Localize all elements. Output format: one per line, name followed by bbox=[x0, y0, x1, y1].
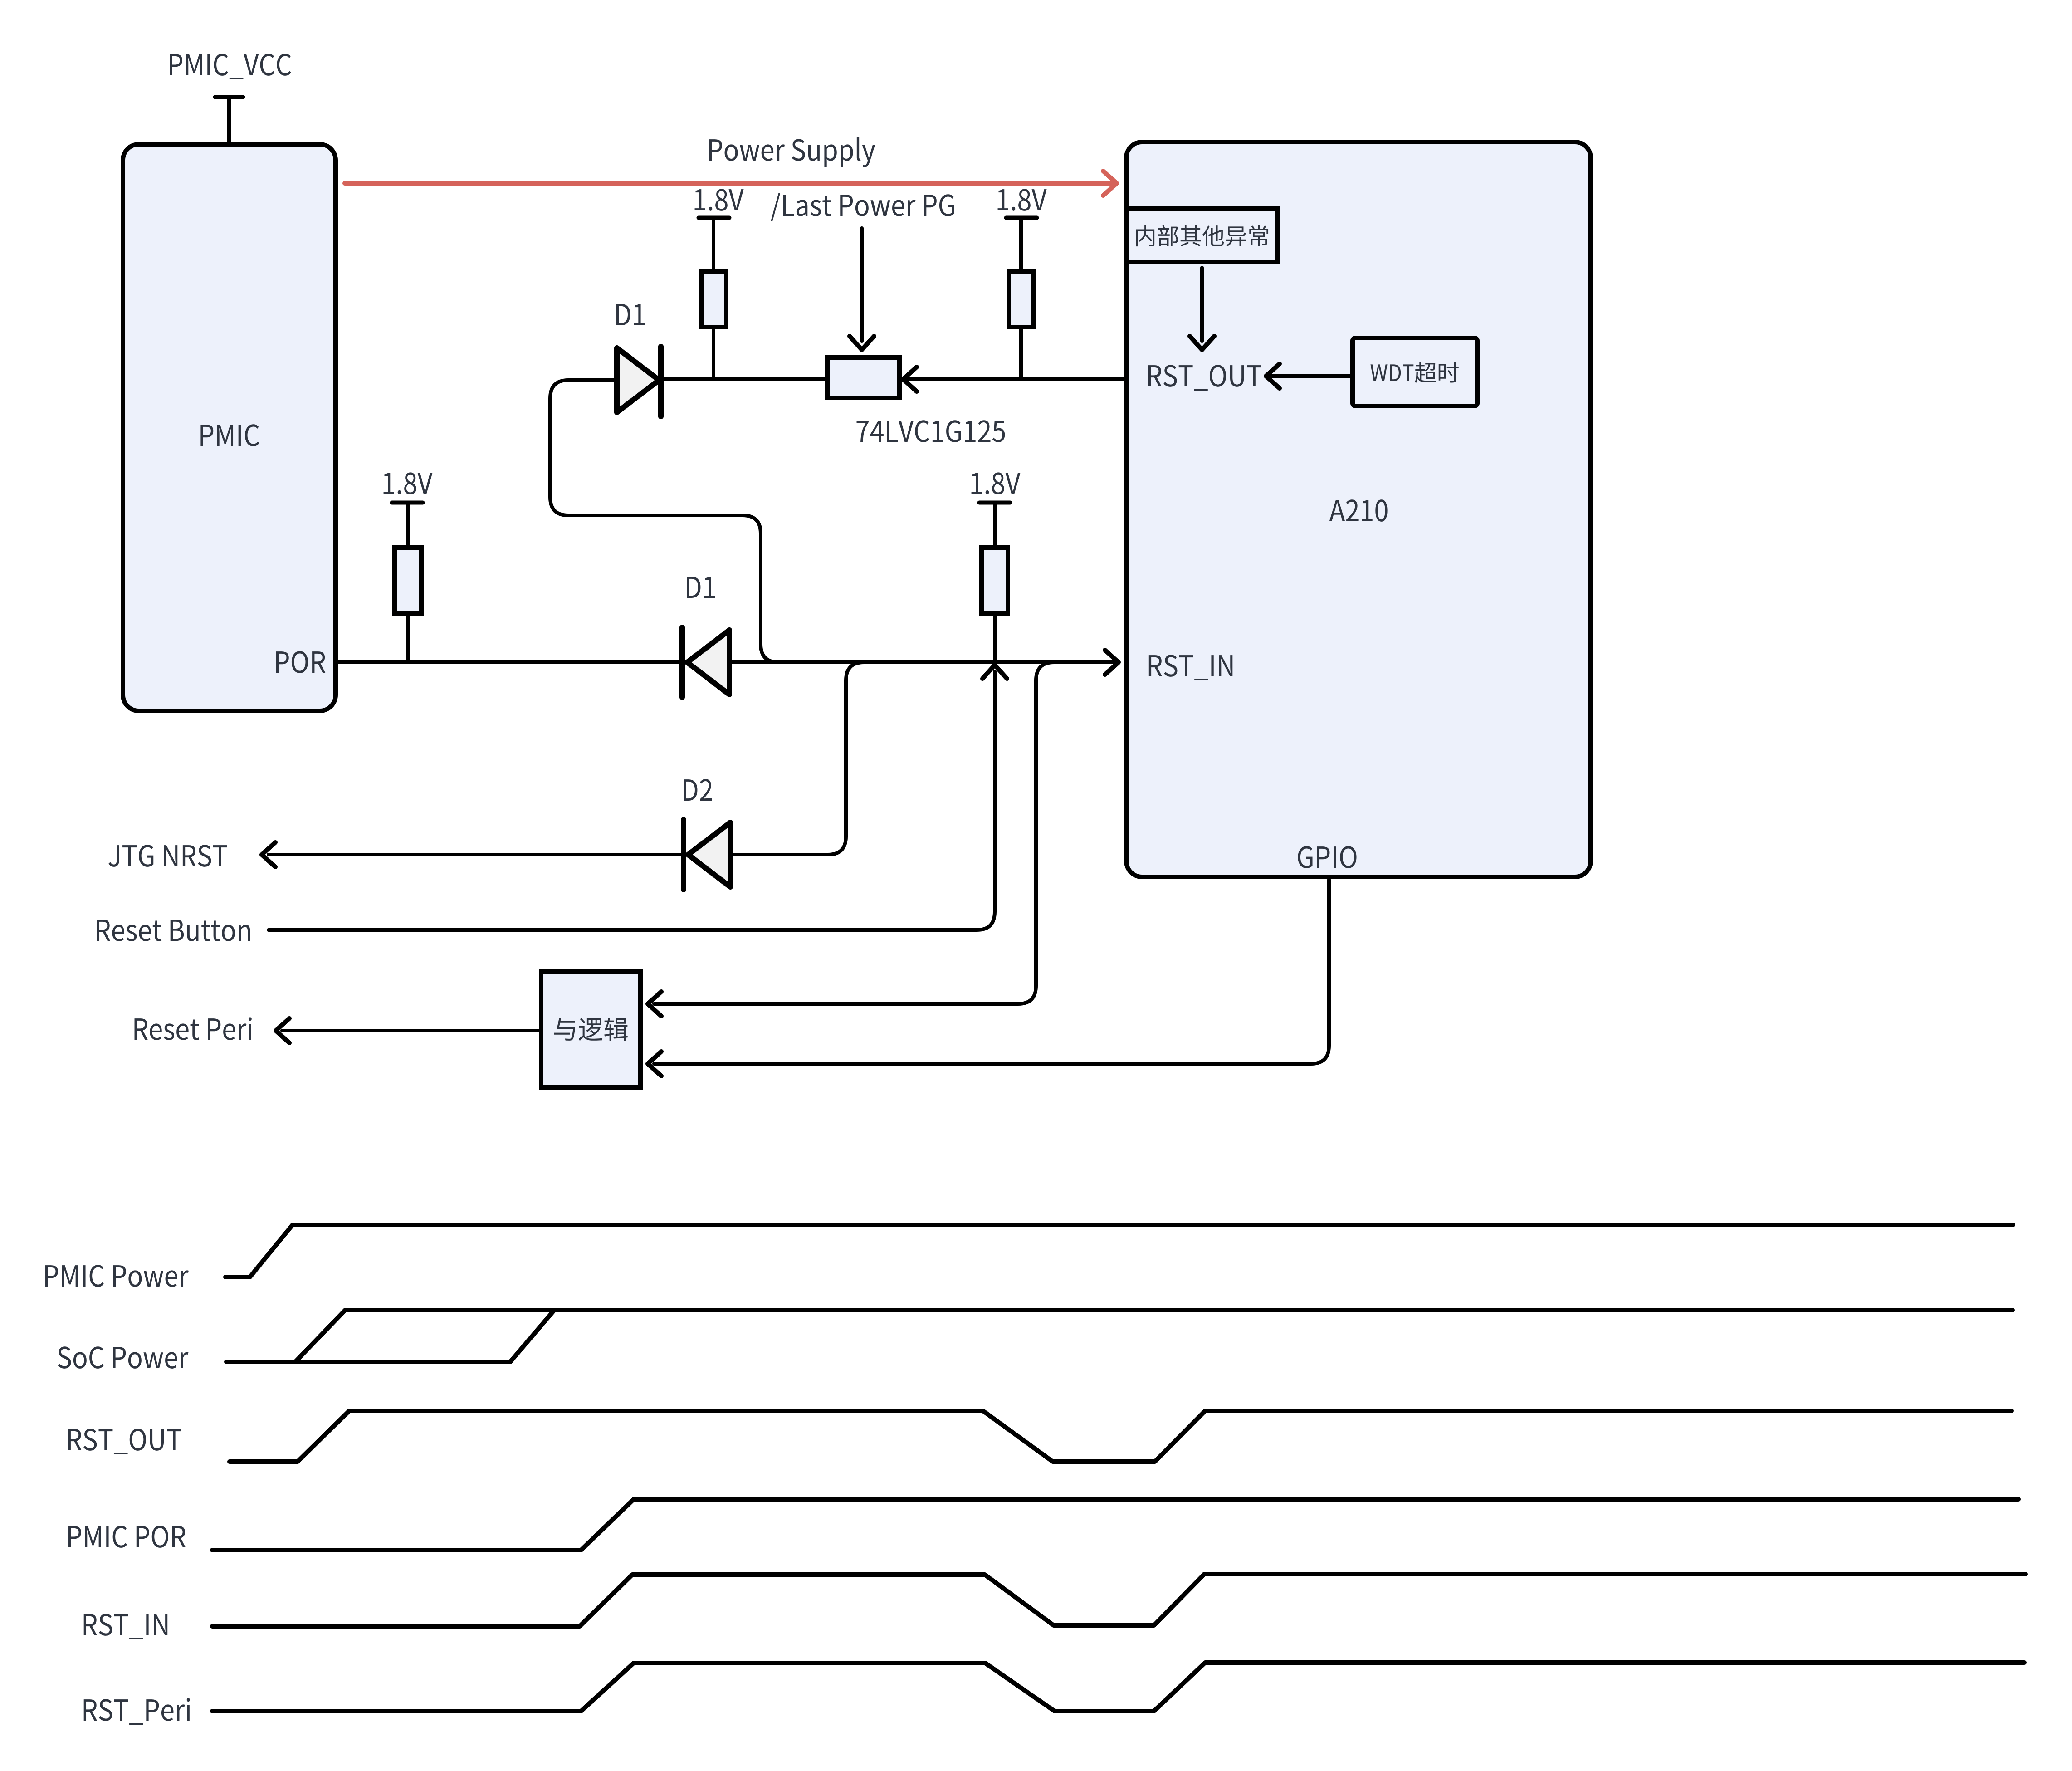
pin label POR bbox=[276, 651, 325, 673]
net label Reset Peri bbox=[135, 1017, 252, 1040]
wire buffer output to D1 cathode bbox=[663, 377, 827, 381]
diode D2 bbox=[684, 820, 730, 890]
PMIC block bbox=[123, 144, 336, 711]
timing waveform RST_Peri bbox=[212, 1663, 2024, 1711]
diode D1 (bottom) bbox=[682, 627, 729, 697]
pin label GPIO bbox=[1298, 846, 1356, 868]
wire D1 anode to RST_IN net (S-curve) bbox=[550, 380, 779, 662]
timing waveform PMIC POR bbox=[212, 1499, 2018, 1550]
label D2 bbox=[684, 779, 712, 801]
timing waveform RST_IN bbox=[212, 1574, 2025, 1626]
wire branch RST_IN net down to D2 anode bbox=[732, 662, 864, 855]
wire PMIC POR to D1 bbox=[336, 660, 680, 664]
resistor R4 bbox=[982, 548, 1008, 662]
internal box 内部其他异常 bbox=[1126, 209, 1278, 262]
power symbol 1.8V (R3) bbox=[384, 472, 433, 548]
timing label RST_OUT bbox=[68, 1429, 181, 1454]
label D1 (bottom diode) bbox=[687, 577, 715, 598]
wire RST_OUT to buffer with arrowhead bbox=[903, 367, 1126, 391]
label Power Supply bbox=[709, 137, 875, 167]
wire GPIO to AND-logic input bbox=[648, 880, 1329, 1076]
resistor R3 bbox=[395, 548, 421, 662]
power symbol 1.8V (R2) bbox=[998, 189, 1047, 271]
timing waveform SoC Power bbox=[226, 1310, 2013, 1362]
diode D1 (top) bbox=[617, 347, 661, 416]
arrow internal exception to RST_OUT bbox=[1190, 268, 1214, 350]
net label JTG NRST bbox=[109, 845, 227, 867]
net label Reset Button bbox=[97, 920, 250, 941]
WDT超时 box bbox=[1353, 338, 1477, 406]
arrow WDT timeout to RST_OUT bbox=[1266, 364, 1350, 388]
resistor R2 bbox=[1009, 271, 1034, 379]
timing label RST_Peri bbox=[84, 1698, 190, 1725]
power symbol PMIC_VCC bbox=[215, 97, 243, 144]
timing label PMIC POR bbox=[68, 1526, 186, 1548]
AND-logic box 与逻辑 bbox=[541, 971, 640, 1087]
A210 block bbox=[1126, 142, 1591, 877]
wire Reset Button to RST_IN net with up arrowhead bbox=[269, 665, 1007, 930]
label D1 (top diode) bbox=[616, 304, 645, 325]
pin label RST_OUT bbox=[1148, 365, 1261, 391]
timing label PMIC Power bbox=[45, 1265, 189, 1287]
wire D2 cathode to JTG NRST with arrowhead bbox=[262, 842, 682, 867]
power symbol 1.8V (R1) bbox=[695, 189, 744, 271]
pin label RST_IN bbox=[1149, 655, 1232, 680]
wire Reset Peri output with arrowhead bbox=[276, 1018, 539, 1043]
resistor R1 bbox=[701, 271, 726, 379]
arrow /Last Power PG into buffer U2 bbox=[850, 228, 874, 350]
wire D1 to RST_IN with arrowhead bbox=[731, 650, 1119, 675]
wire branch RST_IN net down to AND-logic input bbox=[648, 662, 1054, 1016]
timing label RST_IN bbox=[84, 1614, 167, 1639]
wire Power Supply (red) bbox=[345, 171, 1117, 196]
timing waveform RST_OUT bbox=[230, 1411, 2012, 1462]
timing label SoC Power bbox=[58, 1346, 188, 1369]
timing waveform PMIC Power bbox=[225, 1225, 2013, 1277]
label /Last Power PG bbox=[771, 193, 954, 221]
buffer U2 74LVC1G125 bbox=[827, 357, 1005, 442]
power symbol 1.8V (R4) bbox=[972, 472, 1021, 548]
net label PMIC_VCC bbox=[170, 54, 291, 79]
